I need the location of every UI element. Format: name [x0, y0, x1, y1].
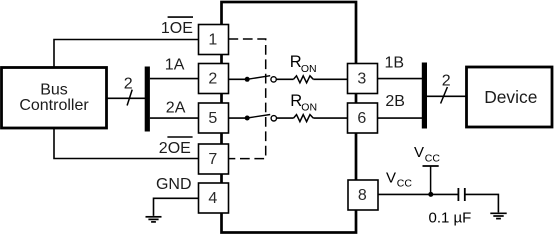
svg-text:3: 3 [357, 71, 366, 88]
svg-text:0.1 µF: 0.1 µF [429, 210, 472, 227]
svg-text:2B: 2B [385, 93, 405, 110]
svg-text:ON: ON [301, 101, 317, 113]
switch SW2 contact [271, 116, 276, 121]
svg-text:7: 7 [208, 151, 217, 168]
wire pin8 VCC [379, 193, 459, 195]
wire pin5 to switch node [229, 117, 248, 119]
svg-text:1: 1 [208, 32, 217, 49]
wire right bus bar to device [427, 95, 467, 97]
pin 1 [199, 25, 229, 55]
right bus bar [422, 63, 427, 129]
wire 2OE [54, 128, 199, 159]
svg-text:Device: Device [484, 87, 537, 107]
svg-text:1OE: 1OE [161, 20, 193, 37]
ground symbol right [490, 213, 506, 218]
wire resistor2 to pin6 [313, 117, 347, 119]
svg-text:2: 2 [208, 71, 217, 88]
pin 3 [348, 64, 378, 94]
bus width slash (right) [441, 87, 448, 104]
switch SW1 contact [271, 77, 276, 82]
bus width slash (left) [127, 90, 132, 106]
resistor R_ON (row 1) [294, 76, 314, 83]
svg-text:Controller: Controller [19, 97, 89, 114]
node dot B (pin5 output) [245, 116, 250, 121]
svg-text:4: 4 [208, 190, 217, 207]
left bus bar [145, 67, 150, 132]
wire 1A [150, 78, 199, 80]
bus controller box [2, 68, 107, 129]
svg-text:Bus: Bus [40, 82, 68, 99]
VCC supply terminal [430, 166, 432, 194]
svg-text:V: V [414, 144, 424, 161]
wire switch2 to resistor R_ON 2 [277, 117, 294, 119]
wire 2A [150, 117, 199, 119]
pin 6 [348, 103, 378, 133]
device box [467, 67, 553, 127]
node dot VCC [428, 192, 433, 197]
svg-text:1A: 1A [165, 56, 185, 73]
wire bus controller to left bus bar [107, 97, 146, 99]
IC body U1 [222, 2, 357, 233]
pin 4 [199, 183, 229, 213]
pin 8 [348, 180, 378, 210]
pin 2 [199, 64, 229, 94]
svg-text:GND: GND [156, 176, 192, 193]
svg-text:R: R [290, 53, 302, 71]
wire pin3 to right bus bar [378, 78, 423, 80]
svg-text:2OE: 2OE [159, 140, 191, 157]
wire GND [154, 198, 199, 216]
wire switch1 to resistor R_ON 1 [276, 78, 293, 80]
svg-text:2A: 2A [166, 99, 186, 116]
svg-text:1B: 1B [385, 54, 405, 71]
switch SW1 blade [247, 76, 270, 80]
svg-text:CC: CC [425, 153, 441, 165]
svg-text:2: 2 [124, 76, 133, 93]
svg-text:8: 8 [358, 187, 367, 204]
pin 7 [199, 144, 229, 174]
svg-text:6: 6 [357, 110, 366, 127]
node dot A (pin2 output) [245, 77, 250, 82]
resistor R_ON (row 2) [294, 115, 314, 122]
dashed OE control net [229, 39, 266, 159]
svg-text:CC: CC [397, 178, 413, 190]
wire 1OE [54, 40, 199, 68]
svg-text:5: 5 [208, 110, 217, 127]
ground symbol left [146, 217, 162, 222]
wire pin6 to right bus bar [378, 117, 423, 119]
wire pin2 to switch node [229, 78, 248, 80]
switch SW2 blade [247, 115, 270, 119]
svg-text:2: 2 [442, 73, 451, 90]
wire resistor1 to pin3 [313, 78, 347, 80]
svg-text:V: V [386, 169, 396, 186]
svg-text:ON: ON [301, 63, 317, 75]
capacitor C1 plates [457, 188, 459, 201]
wire capacitor to ground [465, 194, 499, 212]
pin 5 [199, 103, 229, 133]
